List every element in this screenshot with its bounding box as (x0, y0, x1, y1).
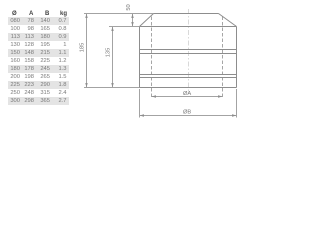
part outline top plateau (154, 13, 219, 15)
extension line lower right (236, 89, 238, 118)
dimension line 135 (112, 27, 114, 88)
table column header diameter (12, 11, 17, 17)
centre axis line (152, 9, 223, 99)
part outline left side (139, 27, 141, 88)
extension line top (84, 13, 154, 15)
dashed inner diameter line right (222, 17, 224, 100)
technical drawing of chimney cap (0, 0, 247, 124)
table column header B (45, 11, 49, 17)
table row 300 (8, 97, 69, 105)
dashed inner diameter line left (151, 17, 153, 100)
arrowhead 50 bottom (131, 22, 133, 27)
part hem seam lower (140, 77, 237, 79)
arrowhead 50 top (131, 14, 133, 19)
table row 200 (8, 73, 69, 81)
arrowhead diameter B left (140, 114, 145, 116)
svg-text:ØB: ØB (183, 110, 191, 116)
part outline left slope (140, 14, 154, 27)
dimension line 50 (132, 14, 134, 27)
dimension line 185 (86, 14, 88, 88)
part outline right side (236, 27, 238, 88)
svg-text:185: 185 (80, 43, 86, 53)
dimension line diameter B (140, 115, 237, 117)
extension line cone base (109, 26, 140, 28)
svg-text:ØA: ØA (183, 91, 191, 97)
arrowhead 185 top (85, 14, 87, 19)
table row 160 (8, 57, 69, 65)
table row 150 (8, 49, 69, 57)
arrowhead diameter B right (232, 114, 237, 116)
part mid seam lower (140, 53, 237, 55)
extension line bottom (84, 87, 140, 89)
part bottom edge (140, 87, 237, 89)
svg-text:50: 50 (126, 4, 132, 10)
table column header kg (60, 11, 67, 17)
arrowhead 135 bottom (111, 83, 113, 88)
part cone base seam (140, 26, 237, 28)
table row 225 (8, 81, 69, 89)
table row 250 (8, 89, 69, 97)
part hem seam upper (140, 74, 237, 76)
dimension line diameter A (152, 96, 223, 98)
table row 180 (8, 65, 69, 73)
table row 100 (8, 25, 69, 33)
table row 113 (8, 33, 69, 41)
arrowhead diameter A left (152, 95, 157, 97)
part outline right slope (219, 14, 237, 27)
arrowhead 135 top (111, 27, 113, 32)
arrowhead 185 bottom (85, 83, 87, 88)
table row 080 (8, 17, 69, 25)
extension line lower left (139, 89, 141, 118)
table row 130 (8, 41, 69, 49)
table column header A (29, 11, 33, 17)
svg-text:135: 135 (106, 48, 112, 58)
part mid seam upper (140, 49, 237, 51)
arrowhead diameter A right (218, 95, 223, 97)
